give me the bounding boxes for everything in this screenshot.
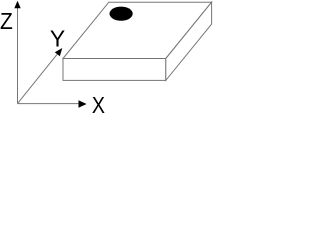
box right face — [166, 2, 212, 80]
svg-text:X: X — [92, 92, 105, 115]
wire Y-axis shaft — [18, 54, 58, 104]
wire X-axis shaft — [18, 103, 81, 105]
hole ellipse on top face — [110, 7, 133, 21]
box top face — [63, 2, 212, 58]
svg-text:Z: Z — [0, 8, 13, 34]
svg-text:Y: Y — [50, 26, 66, 52]
box front face — [63, 59, 166, 81]
Y-axis arrowhead — [55, 48, 63, 56]
Z-axis arrowhead — [14, 1, 20, 8]
X-axis arrowhead — [79, 100, 87, 108]
wire Z-axis shaft — [17, 7, 19, 104]
